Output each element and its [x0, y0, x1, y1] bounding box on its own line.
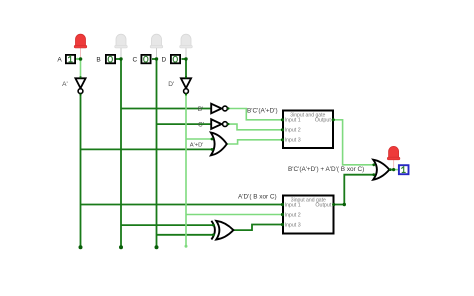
input box C — [141, 55, 150, 63]
node NOT A' output — [79, 93, 81, 95]
subcircuit AND2 (3input and gate) — [283, 196, 334, 234]
svg-text:Output: Output — [315, 118, 331, 124]
node XOR input upper — [212, 224, 215, 227]
wire A box to junction — [76, 58, 81, 60]
svg-text:B: B — [96, 56, 100, 63]
LED C (gray, off) — [150, 34, 163, 48]
wire AND2 output to OR2 lower input — [334, 175, 374, 205]
node B junction — [119, 57, 122, 60]
svg-text:Input 1: Input 1 — [285, 118, 301, 124]
node B wire end — [119, 245, 123, 249]
node A' wire end — [79, 245, 83, 249]
node D junction — [184, 57, 187, 60]
wire B to XOR upper input — [121, 224, 214, 226]
svg-text:Output: Output — [315, 203, 331, 209]
LED output (red, on) — [387, 146, 400, 159]
node C junction — [155, 57, 158, 60]
node AND2 input2 pin — [281, 213, 284, 216]
node NOT D' input — [185, 76, 187, 78]
node XOR input lower — [212, 233, 215, 236]
node OR2 input lower — [372, 173, 375, 176]
node NOT B' output — [227, 107, 229, 109]
wire B vertical — [120, 59, 122, 247]
node input A pin — [76, 58, 78, 60]
output box (result = 1) — [399, 165, 409, 174]
node C wire end — [155, 245, 159, 249]
node A junction — [79, 57, 83, 61]
wire D' to OR1 upper input — [186, 138, 212, 140]
svg-text:Input 3: Input 3 — [285, 138, 301, 144]
node D' wire end — [185, 245, 188, 248]
NOT gate A' (pointing down) — [75, 78, 85, 93]
node OR2 output — [389, 168, 392, 171]
svg-text:A'D'( B xor C): A'D'( B xor C) — [238, 194, 277, 201]
LED lead C — [156, 48, 158, 58]
input D value 0 — [173, 56, 177, 62]
node AND1 output pin — [332, 118, 335, 121]
svg-text:B'C'(A'+D') + A'D'( B xor C): B'C'(A'+D') + A'D'( B xor C) — [288, 166, 364, 173]
node AND2 output corner — [343, 203, 346, 206]
wire A junction down to NOT A' — [80, 59, 82, 79]
node AND2 input1 pin — [281, 203, 284, 206]
input B value 0 — [108, 56, 112, 62]
wire D' to AND2 input2 — [186, 214, 283, 216]
XOR gate (B xor C) — [211, 221, 233, 240]
wire C to XOR lower input — [157, 234, 214, 236]
node OR1 input lower — [211, 148, 214, 151]
input A value 1 — [68, 56, 72, 62]
wire C box to corner — [152, 58, 157, 60]
output value 1 — [401, 167, 405, 173]
LED D (gray, off) — [180, 34, 193, 48]
node LED junction at output — [392, 168, 395, 171]
OR gate OR2 (final sum) — [373, 160, 389, 180]
node OR2 input upper — [372, 163, 375, 166]
LED lead B — [120, 48, 122, 58]
wire XOR output to AND2 input3 — [233, 225, 282, 231]
wire A' output vertical — [80, 94, 82, 247]
wire D' output vertical — [185, 94, 187, 246]
svg-text:Input 1: Input 1 — [285, 203, 301, 209]
wire OR1 output to AND1 input3 — [227, 140, 283, 144]
OR gate OR1 (A'+D') — [211, 133, 227, 156]
svg-text:Input 3: Input 3 — [285, 223, 301, 229]
wire B' output to AND1 input1 — [228, 109, 283, 120]
svg-text:B': B' — [198, 106, 204, 113]
node AND2 output pin — [332, 203, 335, 206]
svg-text:B'C'(A'+D'): B'C'(A'+D') — [247, 107, 278, 114]
wire OR2 output to result box — [389, 169, 399, 171]
LED lead A — [80, 48, 82, 58]
svg-text:D: D — [162, 56, 167, 63]
node NOT D' output — [185, 93, 187, 95]
input box B — [106, 55, 115, 63]
svg-text:Input 2: Input 2 — [285, 128, 301, 134]
input box D — [171, 55, 180, 63]
node AND1 input2 pin — [281, 128, 284, 131]
node AND1 input3 pin — [281, 138, 284, 141]
wire C' output to AND1 input2 — [228, 124, 283, 130]
input box A — [66, 55, 75, 63]
svg-text:A: A — [57, 56, 62, 63]
LED lead output — [393, 160, 395, 170]
LED B (gray, off) — [115, 34, 128, 48]
wire C to NOT C' — [157, 123, 212, 125]
wire AND1 output to OR2 upper input — [334, 120, 374, 165]
LED lead D — [185, 48, 187, 58]
NOT gate D' (pointing down) — [181, 78, 191, 93]
node AND2 input3 pin — [281, 223, 284, 226]
wire C vertical — [156, 59, 158, 247]
wire B box to corner — [116, 58, 122, 60]
svg-text:Input 2: Input 2 — [285, 213, 301, 219]
input C value 0 — [144, 56, 148, 62]
svg-text:A': A' — [62, 81, 68, 88]
svg-text:C: C — [133, 56, 138, 63]
NOT gate C' (pointing right) — [211, 119, 227, 129]
node NOT C' output — [227, 123, 229, 125]
node AND1 input1 pin — [281, 118, 284, 121]
wire B to NOT B' — [121, 108, 211, 110]
node OR1 input upper — [211, 138, 214, 141]
svg-text:C': C' — [198, 121, 204, 128]
NOT gate B' (pointing right) — [211, 104, 227, 114]
wire A' to OR1 lower input — [81, 148, 213, 150]
subcircuit AND1 (3input and gate) — [283, 111, 333, 149]
node NOT A' input — [80, 76, 82, 78]
wire D box to corner — [182, 58, 187, 60]
wire D down to NOT D' — [185, 59, 187, 79]
svg-text:A'+D': A'+D' — [190, 142, 204, 148]
LED A (red, on) — [74, 34, 87, 48]
svg-text:D': D' — [168, 81, 174, 88]
wire A' to AND2 input1 — [81, 204, 283, 206]
